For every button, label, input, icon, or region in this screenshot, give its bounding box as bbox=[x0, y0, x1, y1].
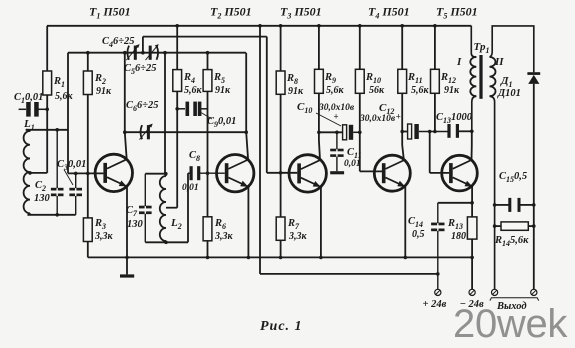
svg-text:С66÷25: С66÷25 bbox=[126, 100, 159, 113]
label R1 5,6k bbox=[53, 76, 74, 102]
terminal +24V bbox=[435, 289, 441, 295]
label D1 bbox=[500, 75, 513, 89]
wire R12 bottom lead bbox=[434, 93, 436, 131]
svg-text:5,6к: 5,6к bbox=[411, 85, 430, 96]
label C10 value bbox=[318, 103, 355, 113]
node +24V rail junction bbox=[436, 272, 440, 276]
wire R2 top lead bbox=[87, 53, 89, 71]
svg-text:Т5 П501: Т5 П501 bbox=[436, 5, 478, 21]
node T1 riser top bbox=[123, 51, 127, 55]
label C12 bbox=[379, 102, 394, 116]
label C9 0,01 bbox=[207, 116, 236, 129]
wire T5 emitter riser bbox=[471, 131, 473, 160]
wire R10 feed bbox=[359, 26, 361, 70]
node R14 left bbox=[493, 224, 497, 228]
transistor T4 bbox=[374, 155, 410, 191]
label C13 1000 bbox=[436, 112, 473, 125]
node R9 top on rail bbox=[317, 24, 321, 28]
svg-text:180: 180 bbox=[451, 231, 466, 242]
wire T5 base feed bbox=[430, 132, 449, 173]
node R12 bottom junction bbox=[433, 130, 437, 134]
resistor R10 bbox=[355, 69, 364, 93]
wire rail to primary top bbox=[471, 26, 476, 57]
wire R9 feed bbox=[318, 26, 320, 70]
resistor R2 bbox=[83, 71, 92, 95]
wire C8 left drop bbox=[187, 173, 189, 242]
wire T1 emitter riser bbox=[125, 53, 127, 160]
wire R2-R3 link bbox=[87, 95, 89, 218]
wire R10 bottom to T4 base bbox=[360, 93, 382, 171]
label R4 5,6k bbox=[183, 72, 203, 96]
svg-text:Т2 П501: Т2 П501 bbox=[210, 5, 252, 21]
node L1 tap bbox=[28, 171, 32, 175]
terminal output right bbox=[531, 289, 537, 295]
wire C13 out to primary bottom bbox=[459, 130, 472, 132]
wire coupling row y132 bbox=[125, 131, 246, 133]
diode D1 bbox=[527, 72, 540, 84]
svg-text:R145,6к: R145,6к bbox=[494, 235, 529, 248]
resistor R8 bbox=[276, 71, 285, 94]
svg-text:5,6к: 5,6к bbox=[55, 91, 74, 102]
svg-text:С90,01: С90,01 bbox=[207, 116, 236, 129]
label winding II bbox=[494, 56, 504, 68]
svg-text:+ 24в: + 24в bbox=[423, 299, 447, 310]
label C2 130 bbox=[34, 180, 51, 204]
label T2 P501 bbox=[210, 5, 252, 21]
label winding I bbox=[456, 56, 462, 68]
wire diode bottom drop bbox=[533, 84, 535, 289]
wire L1 tap bbox=[30, 172, 47, 174]
svg-text:+: + bbox=[334, 112, 339, 122]
node T2 riser coupling junction bbox=[244, 130, 248, 134]
wire R5 feed bbox=[207, 53, 209, 70]
transformer Tr1 secondary winding II bbox=[490, 57, 496, 96]
terminal -24V bbox=[469, 289, 475, 295]
resistor R6 bbox=[203, 217, 212, 241]
node R14 right bbox=[532, 224, 536, 228]
wire rail2 feed drop bbox=[259, 26, 261, 274]
wire C3 label leader bbox=[64, 170, 73, 186]
label R3 3,3k bbox=[94, 218, 114, 242]
wire T3 base wire bbox=[267, 172, 298, 174]
wire C7 bottom wire bbox=[145, 241, 188, 243]
svg-text:Рис. 1: Рис. 1 bbox=[260, 319, 303, 334]
label D101 bbox=[497, 88, 521, 99]
capacitor C6 (variable) bbox=[140, 124, 153, 140]
wire L1 top to divider bbox=[26, 130, 68, 132]
svg-text:91к: 91к bbox=[288, 86, 304, 97]
node C4-C5 midpoint bbox=[141, 51, 145, 55]
label R13 180 bbox=[447, 218, 466, 242]
ground under C11 bbox=[330, 171, 344, 174]
label C14 bbox=[408, 216, 423, 229]
label R5 91k bbox=[213, 72, 231, 96]
capacitor C11 bbox=[330, 131, 343, 172]
resistor R3 bbox=[83, 218, 92, 242]
label C7 130 bbox=[126, 205, 144, 230]
wire L2 riser bbox=[164, 53, 166, 174]
wire T3 emitter riser bbox=[319, 132, 320, 160]
svg-text:С46÷25: С46÷25 bbox=[102, 36, 135, 49]
wire T1 collector drop bbox=[126, 187, 128, 275]
node T4 riser junction bbox=[400, 130, 404, 134]
svg-text:30,0х10в: 30,0х10в bbox=[359, 114, 396, 124]
wire T4 emitter riser bbox=[402, 132, 404, 161]
node R13 bus junction bbox=[470, 256, 474, 260]
transformer Tr1 primary winding I bbox=[470, 57, 476, 96]
transistor T2 bbox=[217, 155, 254, 192]
ground under T1 bbox=[120, 274, 134, 277]
svg-text:5,6к: 5,6к bbox=[184, 85, 203, 96]
label Vyhod bbox=[496, 301, 527, 312]
wire T1 base wire bbox=[68, 172, 103, 174]
node R7 bus junction bbox=[279, 256, 283, 260]
wire main bus (-24V) bbox=[88, 256, 472, 258]
wire T2 collector drop bbox=[247, 187, 249, 258]
inductor L1 bbox=[24, 131, 30, 213]
label R10 56k bbox=[365, 72, 385, 96]
resistor R9 bbox=[315, 69, 324, 93]
wire R4 feed bbox=[176, 26, 178, 70]
label Tr1 bbox=[474, 41, 490, 55]
label C1 0,01 bbox=[14, 92, 43, 105]
svg-text:С10,01: С10,01 bbox=[14, 92, 43, 105]
label R12 91k bbox=[440, 72, 460, 96]
terminal output left bbox=[492, 289, 498, 295]
label L1 bbox=[23, 118, 35, 132]
wire T3 collector drop bbox=[320, 187, 322, 257]
wire R5-R6 link bbox=[207, 91, 209, 216]
svg-text:II: II bbox=[494, 56, 504, 68]
node T4 collector bus junction bbox=[404, 256, 408, 260]
resistor R13 bbox=[467, 217, 477, 239]
wire secondary bottom drop bbox=[490, 96, 495, 289]
svg-text:I: I bbox=[456, 56, 462, 68]
label R6 3,3k bbox=[214, 218, 234, 242]
label R2 91k bbox=[94, 73, 112, 97]
node C2 top junction bbox=[55, 128, 59, 132]
transformer Tr1 core bbox=[479, 55, 482, 99]
wire L1 bottom elbow bbox=[28, 213, 31, 215]
capacitor C5 (variable) bbox=[146, 44, 159, 60]
resistor R7 bbox=[276, 217, 285, 240]
wire R11 bottom to coupling bbox=[401, 93, 403, 131]
node R2 junction on base wire bbox=[86, 172, 90, 176]
capacitor C9 bbox=[175, 102, 207, 116]
node rail2 feed top bbox=[258, 24, 262, 28]
label C8 0,01 bbox=[182, 183, 199, 193]
label C12 value bbox=[359, 114, 396, 124]
wire C10 row bbox=[319, 131, 343, 133]
wire output bracket bbox=[490, 298, 539, 301]
transistor T1 bbox=[95, 154, 132, 191]
capacitor C8 bbox=[188, 166, 225, 180]
node C15 left bbox=[493, 203, 497, 207]
wire R1 bottom lead down to tap bbox=[46, 95, 48, 173]
node C2 bottom junction bbox=[55, 213, 59, 217]
transistor T5 bbox=[442, 155, 478, 191]
wire T2 emitter riser bbox=[246, 53, 248, 160]
wire R4 bottom elbow to L2 tap bbox=[166, 91, 177, 207]
wire C10 label leader bbox=[316, 113, 341, 126]
label C4 6:25 bbox=[102, 36, 135, 49]
capacitor C15 bbox=[495, 198, 534, 212]
capacitor C13 bbox=[447, 124, 459, 138]
label C11 0,01 bbox=[344, 159, 361, 169]
capacitor C2 bbox=[51, 130, 64, 215]
label R14 5,6k bbox=[494, 235, 529, 248]
svg-text:0,01: 0,01 bbox=[182, 183, 199, 193]
node R12 top on rail bbox=[433, 24, 437, 28]
label C8 bbox=[189, 150, 200, 163]
svg-text:Т1 П501: Т1 П501 bbox=[89, 5, 131, 21]
capacitor C7 bbox=[139, 174, 152, 243]
node R10 top on rail bbox=[358, 24, 362, 28]
label C10 bbox=[297, 101, 312, 115]
label C15 0,5 bbox=[499, 171, 527, 184]
wire R8-R7 link bbox=[280, 94, 282, 217]
wire R13 bottom to bus bbox=[471, 239, 473, 257]
capacitor C10 (electrolytic) bbox=[343, 125, 360, 140]
wire secondary top loop to diode bbox=[490, 26, 534, 72]
wire T5 collector drop bbox=[471, 187, 473, 217]
wire -24V drop bbox=[471, 257, 473, 289]
label C11 bbox=[347, 147, 362, 160]
svg-text:Т4 П501: Т4 П501 bbox=[368, 5, 410, 21]
wire R12 feed bbox=[434, 26, 436, 70]
label C10 plus bbox=[334, 112, 339, 122]
node C3 junction on base wire bbox=[74, 172, 78, 176]
node L2 top bbox=[164, 172, 168, 176]
svg-text:0,5: 0,5 bbox=[412, 229, 425, 240]
label C6 6:25 bbox=[126, 100, 159, 113]
node L2 bottom bbox=[164, 241, 168, 245]
label C5 6:25 bbox=[124, 63, 157, 76]
svg-text:130: 130 bbox=[34, 193, 51, 204]
label R9 5,6k bbox=[324, 72, 345, 96]
svg-text:56к: 56к bbox=[369, 85, 385, 96]
node T5 collector / R13 top bbox=[470, 201, 474, 205]
node R5 junction on T2 base bbox=[206, 171, 210, 175]
svg-text:С56÷25: С56÷25 bbox=[124, 63, 157, 76]
wire T4 collector drop bbox=[404, 187, 406, 258]
node primary bottom junction bbox=[470, 130, 474, 134]
wire midpoint stub up bbox=[142, 37, 144, 53]
capacitor C3 bbox=[69, 173, 82, 214]
resistor R12 bbox=[431, 69, 440, 93]
svg-text:91к: 91к bbox=[215, 85, 231, 96]
node R8 junction on T3 base bbox=[279, 171, 283, 175]
inductor L2 bbox=[160, 174, 166, 243]
wire primary bottom lead bbox=[472, 96, 477, 131]
wire divider drop x68 bbox=[67, 53, 69, 174]
svg-text:91к: 91к bbox=[444, 85, 460, 96]
node R5 top bbox=[206, 51, 210, 55]
wire R11 feed bbox=[401, 26, 403, 70]
node T3 riser junction bbox=[317, 131, 321, 135]
svg-text:С131000: С131000 bbox=[436, 112, 473, 125]
svg-text:С150,5: С150,5 bbox=[499, 171, 527, 184]
wire C4C5 mid to T3 base (upper run) bbox=[143, 37, 267, 173]
node L2 riser top bbox=[163, 51, 167, 55]
label T5 P501 bbox=[436, 5, 478, 21]
svg-text:0,01: 0,01 bbox=[344, 159, 361, 169]
svg-text:Т3 П501: Т3 П501 bbox=[280, 5, 322, 21]
wire C7 top wire bbox=[145, 173, 166, 175]
label C3 0,01 bbox=[57, 159, 86, 172]
wire +24V rail2 bbox=[260, 273, 438, 275]
node T1 riser coupling junction bbox=[123, 130, 127, 134]
resistor R1 bbox=[43, 71, 52, 95]
svg-text:С30,01: С30,01 bbox=[57, 159, 86, 172]
label T3 P501 bbox=[280, 5, 322, 21]
label L2 bbox=[170, 217, 182, 231]
svg-text:5,6к: 5,6к bbox=[326, 85, 345, 96]
wire C9 label leader bbox=[200, 112, 212, 119]
wire divider row y52.7 bbox=[68, 52, 246, 54]
resistor R14 bbox=[495, 222, 534, 230]
node T3 collector bus junction bbox=[319, 256, 323, 260]
svg-text:20wek: 20wek bbox=[453, 302, 568, 346]
resistor R11 bbox=[398, 69, 407, 93]
wire R7 bottom to bus bbox=[280, 240, 282, 257]
watermark 20wek bbox=[453, 302, 568, 346]
svg-text:Д101: Д101 bbox=[497, 88, 521, 99]
label figure caption bbox=[260, 319, 303, 334]
node C15 right bbox=[532, 203, 536, 207]
svg-text:130: 130 bbox=[127, 219, 144, 230]
node C10 out bbox=[358, 131, 362, 135]
wire C12 row bbox=[402, 131, 407, 133]
label T4 P501 bbox=[368, 5, 410, 21]
node T2 collector bus junction bbox=[247, 256, 251, 260]
node R2 top bbox=[86, 51, 90, 55]
wire R9 bottom to coupling bbox=[318, 93, 320, 132]
node T1 collector bus junction bbox=[125, 256, 129, 260]
svg-text:91к: 91к bbox=[96, 86, 112, 97]
wire left drop from top rail to R1 bbox=[46, 26, 48, 71]
wire C14 top wire bbox=[438, 202, 472, 204]
node R8 top on rail bbox=[279, 24, 283, 28]
capacitor C1 bbox=[19, 102, 48, 117]
svg-text:3,3к: 3,3к bbox=[214, 231, 234, 242]
resistor R5 bbox=[203, 70, 212, 92]
node R4 top on rail bbox=[175, 24, 179, 28]
label +24V bbox=[423, 299, 447, 310]
resistor R4 bbox=[173, 70, 182, 92]
capacitor C4 (variable) bbox=[126, 44, 139, 60]
svg-text:3,3к: 3,3к bbox=[94, 231, 114, 242]
label R7 3,3k bbox=[287, 218, 308, 242]
svg-text:+: + bbox=[396, 112, 401, 122]
wire C2/C3 bottom wire bbox=[28, 214, 76, 216]
label T1 P501 bbox=[89, 5, 131, 21]
wire R3 bottom to bus bbox=[87, 242, 89, 258]
wire R6 bottom to bus bbox=[207, 241, 209, 258]
svg-text:3,3к: 3,3к bbox=[288, 231, 308, 242]
capacitor C14 bbox=[431, 203, 444, 289]
node C12 out / T5 base tee bbox=[428, 130, 432, 134]
label -24V bbox=[460, 299, 484, 310]
label R8 91k bbox=[286, 73, 304, 97]
node C1-R1 junction bbox=[45, 108, 49, 112]
node R11 top on rail bbox=[400, 24, 404, 28]
label C14 0,5 bbox=[412, 229, 425, 240]
label C12 plus bbox=[396, 112, 401, 122]
transistor T3 bbox=[289, 155, 326, 192]
wire R8 feed bbox=[280, 26, 282, 71]
capacitor C12 (electrolytic) bbox=[408, 124, 449, 139]
node R6 bus junction bbox=[206, 256, 210, 260]
label R11 5,6k bbox=[407, 72, 430, 96]
wire +24V top rail bbox=[47, 25, 471, 27]
